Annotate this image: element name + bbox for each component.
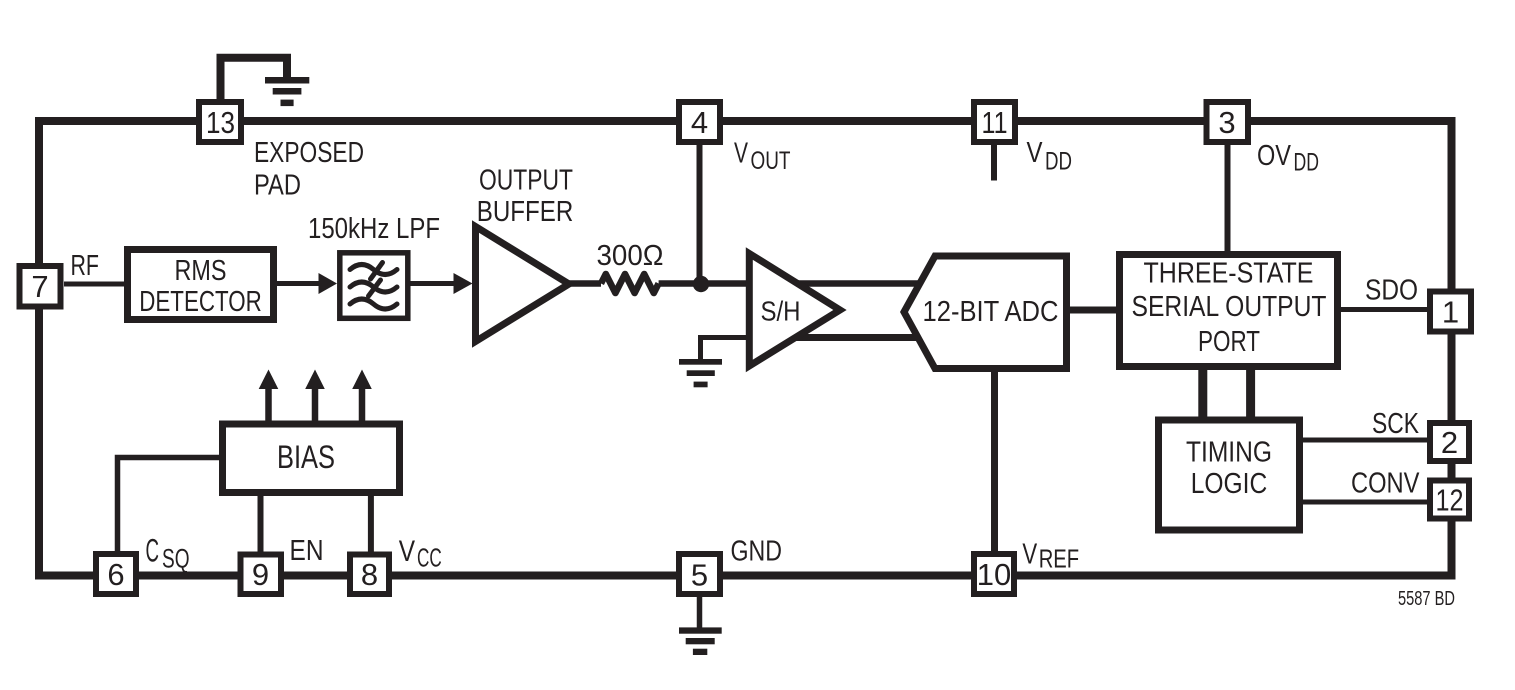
svg-text:150kHz LPF: 150kHz LPF <box>308 213 440 245</box>
svg-text:13: 13 <box>206 105 235 140</box>
svg-text:V: V <box>1027 137 1044 169</box>
svg-text:SDO: SDO <box>1365 275 1418 307</box>
svg-text:3: 3 <box>1218 105 1235 140</box>
svg-text:SCK: SCK <box>1372 408 1420 440</box>
svg-text:BUFFER: BUFFER <box>477 196 574 228</box>
svg-text:4: 4 <box>691 105 708 140</box>
svg-text:11: 11 <box>982 105 1008 140</box>
svg-text:CC: CC <box>417 543 442 573</box>
svg-text:LOGIC: LOGIC <box>1191 468 1268 500</box>
svg-text:5587 BD: 5587 BD <box>1398 588 1455 610</box>
svg-text:V: V <box>1022 539 1037 571</box>
svg-text:SERIAL OUTPUT: SERIAL OUTPUT <box>1132 291 1327 323</box>
svg-text:8: 8 <box>361 557 378 592</box>
svg-text:GND: GND <box>731 536 783 568</box>
svg-text:EXPOSED: EXPOSED <box>254 137 364 169</box>
svg-text:OV: OV <box>1257 140 1292 172</box>
svg-text:C: C <box>146 533 160 569</box>
svg-text:10: 10 <box>977 557 1011 592</box>
svg-text:300Ω: 300Ω <box>597 240 664 272</box>
svg-text:7: 7 <box>31 269 48 304</box>
svg-text:12: 12 <box>1436 483 1464 518</box>
svg-text:6: 6 <box>107 557 124 592</box>
svg-text:DD: DD <box>1045 148 1072 176</box>
svg-text:V: V <box>734 138 748 170</box>
svg-text:OUT: OUT <box>751 147 791 175</box>
svg-text:THREE-STATE: THREE-STATE <box>1144 258 1314 290</box>
svg-text:PORT: PORT <box>1198 326 1260 358</box>
svg-text:DETECTOR: DETECTOR <box>139 286 262 318</box>
svg-text:OUTPUT: OUTPUT <box>479 165 573 197</box>
svg-text:RMS: RMS <box>175 255 227 287</box>
svg-text:9: 9 <box>252 557 269 592</box>
svg-text:RF: RF <box>71 250 100 282</box>
svg-text:2: 2 <box>1441 425 1458 460</box>
svg-text:BIAS: BIAS <box>277 439 335 475</box>
svg-text:EN: EN <box>290 535 324 567</box>
svg-text:SQ: SQ <box>162 544 190 574</box>
svg-text:CONV: CONV <box>1351 468 1420 500</box>
svg-text:REF: REF <box>1039 544 1079 574</box>
svg-text:5: 5 <box>691 558 708 593</box>
svg-text:PAD: PAD <box>254 170 301 202</box>
svg-text:12-BIT ADC: 12-BIT ADC <box>923 296 1059 328</box>
svg-text:S/H: S/H <box>761 296 801 327</box>
svg-text:TIMING: TIMING <box>1186 437 1272 469</box>
svg-text:1: 1 <box>1442 295 1459 330</box>
svg-text:DD: DD <box>1294 149 1320 177</box>
svg-text:V: V <box>399 535 415 568</box>
